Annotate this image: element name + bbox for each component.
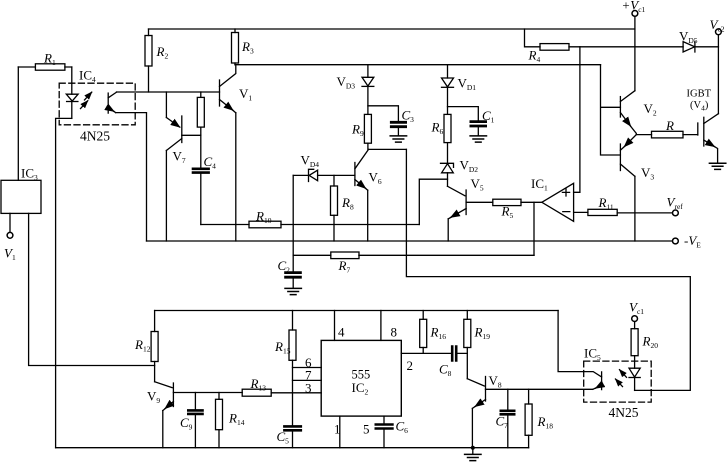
wire IC4 emitter to left column: [116, 113, 147, 241]
wire V2 V3 base column: [601, 65, 621, 155]
phototransistor of IC5: [558, 311, 602, 390]
zener diode VD2: [441, 143, 454, 187]
resistor R19: [464, 311, 471, 379]
wire V7 collector down: [165, 151, 167, 242]
diode VD1: [442, 65, 454, 115]
wire C1 to ground: [477, 127, 479, 136]
diode VD5: [683, 42, 695, 52]
LED of IC5: [629, 356, 640, 391]
terminal Vc1 lower: [632, 316, 638, 329]
terminal -VE: [673, 238, 679, 244]
wire C3 to ground: [397, 128, 399, 136]
wire lower supply rail: [155, 310, 558, 312]
block IC3: [1, 180, 41, 213]
svg-text:1: 1: [334, 422, 341, 437]
resistor R13: [242, 389, 271, 396]
resistor R16: [420, 311, 427, 354]
wire junction down to R7 line: [533, 202, 535, 255]
wire R7 line: [293, 254, 534, 256]
transistor V9: [155, 382, 243, 411]
wire R10 line: [201, 224, 419, 226]
wire top supply rail: [149, 28, 635, 30]
light arrows of IC5: [620, 370, 627, 378]
wire bottom ground rail: [56, 447, 529, 449]
wire long feed to IC5 net: [406, 149, 690, 390]
resistor R1: [18, 64, 72, 70]
transistor V3: [620, 135, 636, 177]
phototransistor of IC4: [108, 92, 116, 113]
resistor R5: [493, 199, 521, 205]
wire R1 right to LED: [71, 67, 73, 94]
ground at C3: [390, 136, 406, 142]
svg-text:IGBT: IGBT: [687, 89, 712, 100]
ground at C1: [470, 136, 486, 142]
ground at C2: [285, 288, 301, 294]
wire V1 emitter down: [235, 113, 237, 241]
wire R13 to pin3: [271, 392, 321, 394]
resistor R14: [216, 393, 223, 448]
terminal +Vc1: [632, 11, 638, 91]
wire pin2 line: [401, 352, 467, 354]
optocoupler IC4 dashed box: [59, 83, 135, 125]
capacitor C1: [471, 122, 486, 126]
wire pin5: [383, 416, 385, 424]
terminal Vc2: [716, 29, 722, 47]
ground at IGBT emitter: [709, 163, 725, 169]
op-amp IC1: [542, 183, 574, 221]
wire R1 left to IC3: [17, 67, 19, 180]
transistor V8: [467, 377, 593, 409]
resistor R18: [525, 389, 532, 447]
resistor R15: [289, 311, 296, 426]
transistor V5: [448, 186, 493, 219]
wire R4 line to Vc2: [569, 46, 718, 48]
svg-text:4N25: 4N25: [609, 405, 639, 420]
capacitor C9: [188, 393, 202, 448]
capacitor C2: [286, 273, 301, 289]
transistor V1: [220, 65, 236, 113]
resistor R10: [249, 221, 281, 228]
wire pin6 line: [293, 367, 322, 369]
resistor R6: [444, 114, 451, 142]
wire VD2 node left branch: [419, 179, 447, 224]
svg-text:2: 2: [407, 358, 414, 373]
transistor V7: [166, 92, 200, 151]
light arrows of IC4: [85, 92, 92, 100]
terminal V1 input: [7, 213, 13, 238]
capacitor C3: [391, 122, 405, 126]
wire V1 base rail: [117, 91, 220, 93]
wire pin7 line: [293, 379, 322, 381]
resistor R12: [151, 311, 158, 382]
wire V5 emitter down: [447, 219, 449, 241]
wire IC3 to V9 base node: [29, 213, 155, 365]
transistor V2: [620, 91, 636, 135]
resistor R: [652, 131, 684, 138]
resistor R7: [331, 252, 359, 259]
wire LED cathode to bottom rail: [56, 118, 72, 447]
svg-text:5: 5: [363, 422, 370, 437]
svg-text:8: 8: [391, 325, 398, 340]
wire node to resistor R: [636, 134, 651, 136]
zener diode VD4: [293, 169, 355, 181]
ground at bottom rail: [465, 448, 481, 461]
resistor R8: [331, 175, 338, 241]
wire R11 to Vref terminal: [617, 212, 672, 214]
svg-text:4: 4: [338, 325, 345, 340]
wire pin1: [339, 416, 341, 448]
capacitor C5: [284, 426, 300, 447]
svg-text:R: R: [665, 118, 674, 133]
wire R5 to IC1 apex: [521, 201, 542, 203]
resistor unlabeled near V7: [197, 92, 204, 135]
transistor V6: [355, 149, 369, 190]
capacitor C7: [501, 389, 514, 447]
resistor R9: [364, 114, 371, 143]
timer 555 IC2 box: [321, 340, 401, 416]
wire IC1 plus input to R4 node: [574, 47, 580, 193]
resistor R3: [232, 29, 239, 65]
wire rail y64: [235, 64, 601, 66]
wire IC1 minus input: [574, 211, 588, 213]
LED of IC4: [66, 94, 78, 118]
wire C2 vertical node: [292, 175, 294, 272]
wire V3 collector down: [634, 176, 636, 241]
wire V8 emitter down: [471, 408, 473, 447]
capacitor C6: [376, 425, 393, 448]
wire R9 bottom to V6 collector line: [368, 143, 407, 149]
wire pin8: [380, 311, 382, 341]
resistor R11: [588, 209, 617, 215]
capacitor C8: [452, 347, 456, 361]
wire V9 emitter down: [162, 411, 164, 448]
wire R to IGBT gate: [683, 134, 698, 136]
optocoupler IC5 dashed box: [584, 361, 652, 402]
wire -VE rail y241: [147, 240, 673, 242]
wire pin4: [334, 311, 336, 341]
wire R4 branch from top rail: [525, 29, 541, 47]
resistor R4: [540, 44, 569, 51]
junction dot ground: [471, 446, 475, 450]
resistor R20: [631, 329, 638, 356]
svg-text:3: 3: [305, 381, 312, 396]
capacitor C4: [193, 135, 209, 224]
IGBT V4: [698, 114, 719, 163]
wire C1 branch: [448, 107, 479, 121]
wire IGBT collector column: [717, 47, 719, 114]
diode VD3: [362, 65, 374, 115]
resistor R2: [145, 29, 152, 92]
wire V6 emitter down: [367, 190, 369, 241]
svg-text:(V4): (V4): [690, 100, 709, 113]
svg-text:4N25: 4N25: [80, 129, 110, 144]
wire C3 branch: [368, 106, 399, 122]
terminal Vref: [673, 210, 679, 216]
